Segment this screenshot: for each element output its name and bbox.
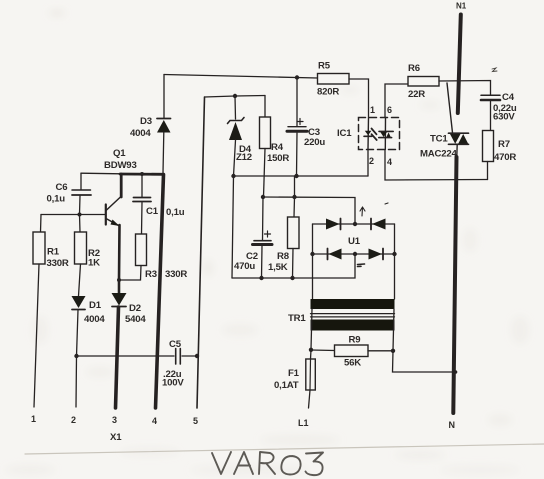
svg-text:2: 2 <box>369 156 374 166</box>
svg-text:R8: R8 <box>277 251 290 262</box>
svg-text:22R: 22R <box>408 89 425 100</box>
resistor R8 <box>268 197 299 278</box>
svg-text:N1: N1 <box>456 2 467 11</box>
svg-text:U1: U1 <box>348 236 361 247</box>
svg-text:R5: R5 <box>318 61 331 72</box>
wire X1 pin5 lead <box>197 97 205 408</box>
svg-text:IC1: IC1 <box>337 128 352 139</box>
VAR 03 title lettering R <box>259 452 275 474</box>
svg-text:TR1: TR1 <box>288 313 306 324</box>
svg-text:1: 1 <box>370 105 375 115</box>
svg-text:X1: X1 <box>110 432 122 443</box>
wire C5 link left <box>77 355 175 357</box>
svg-text:4004: 4004 <box>130 128 151 139</box>
node C5 right <box>195 354 199 358</box>
VAR 03 title lettering V <box>212 452 231 474</box>
U1 label and polarity marks <box>348 203 388 267</box>
node R8 bottom <box>290 276 294 280</box>
svg-text:820R: 820R <box>317 87 339 98</box>
svg-text:56K: 56K <box>344 358 361 369</box>
capacitor C2 <box>234 197 272 278</box>
wire minus net horizontal <box>234 175 369 177</box>
svg-text:0,1u: 0,1u <box>47 194 66 205</box>
svg-text:D2: D2 <box>129 303 141 314</box>
node U1 ac right <box>392 252 396 256</box>
wire U1 left leg down to TR1 <box>312 224 314 299</box>
node C2 bottom <box>259 276 263 280</box>
resistor R3 <box>119 234 187 280</box>
svg-text:4004: 4004 <box>84 314 105 325</box>
node U1 plus output <box>353 222 357 226</box>
wire IC1 pin6 to R6 <box>385 84 408 118</box>
wire to neutral bottom <box>393 351 457 372</box>
triac TC1 <box>420 133 469 159</box>
node R3/emitter junction <box>117 278 121 282</box>
wire X1 pin1 lead <box>34 264 39 407</box>
capacitor C1 <box>133 172 185 234</box>
stray pen mark near C4 <box>492 68 497 72</box>
fuse F1 <box>274 350 315 408</box>
node D4 top <box>233 94 237 98</box>
wire X1 pin2 lead <box>75 356 78 407</box>
svg-text:1: 1 <box>31 414 36 424</box>
node R8 top <box>292 195 296 199</box>
svg-text:0,1u: 0,1u <box>166 207 185 218</box>
node C5 left <box>74 354 78 358</box>
resistor R1 <box>33 215 69 270</box>
wire link between nets <box>294 176 296 197</box>
diode D3 <box>130 75 171 174</box>
node U1 ac left <box>310 252 314 256</box>
diode U1 bridge bottom-left <box>313 249 395 260</box>
node R9 left junction <box>309 348 313 352</box>
resistor R7 <box>483 131 517 180</box>
svg-text:BDW93: BDW93 <box>104 160 137 171</box>
svg-text:R7: R7 <box>498 139 510 150</box>
svg-text:R9: R9 <box>349 335 361 346</box>
svg-text:R3: R3 <box>145 269 157 280</box>
svg-text:470R: 470R <box>494 152 516 163</box>
capacitor C6 <box>47 173 92 214</box>
svg-text:2: 2 <box>71 415 76 425</box>
svg-text:3: 3 <box>112 415 117 425</box>
resistor R2 <box>75 215 101 269</box>
transformer TR1 <box>288 299 395 331</box>
wire plus net horizontal <box>263 197 355 223</box>
resistor R9 <box>311 335 393 369</box>
svg-text:TC1: TC1 <box>430 134 448 145</box>
svg-text:100V: 100V <box>162 378 184 389</box>
wire IC1 pin2 to minus net <box>367 150 369 177</box>
wire C3 top <box>296 78 298 127</box>
wire top supply rail from D3 cathode to R5 <box>164 75 318 79</box>
svg-text:0,1AT: 0,1AT <box>274 380 299 391</box>
svg-text:L1: L1 <box>298 418 309 428</box>
diode D1 <box>72 264 106 356</box>
svg-text:4: 4 <box>387 157 392 167</box>
wire IC1 pin4 to snubber bottom <box>385 150 488 181</box>
transistor Q1 <box>104 148 137 226</box>
svg-text:D1: D1 <box>89 300 102 311</box>
svg-text:4: 4 <box>152 416 157 426</box>
wire TR1 right primary lead <box>393 309 394 351</box>
svg-text:R6: R6 <box>408 63 420 74</box>
VAR 03 title lettering 3 <box>306 453 324 476</box>
svg-text:630V: 630V <box>493 112 515 123</box>
node C3 bottom junction <box>294 174 298 178</box>
svg-text:MAC224: MAC224 <box>420 149 458 160</box>
svg-text:220u: 220u <box>304 137 325 148</box>
wire N1 drop lower thick <box>453 157 456 413</box>
svg-text:C6: C6 <box>56 182 68 193</box>
node C6/R2 junction <box>78 213 82 217</box>
node U1 minus output <box>353 252 357 256</box>
wire C3 bottom to minus net <box>296 133 299 176</box>
resistor R5 <box>317 61 349 98</box>
svg-text:N: N <box>449 420 456 430</box>
IC1 internal photo-triac <box>379 118 393 150</box>
svg-text:1,5K: 1,5K <box>268 262 288 273</box>
node R9 right junction <box>391 349 395 353</box>
node D4 bottom <box>231 174 235 178</box>
wire bottom dc net <box>232 255 355 279</box>
capacitor C3 <box>287 119 325 149</box>
wire faint page rule line <box>25 444 544 454</box>
svg-text:C4: C4 <box>502 92 515 103</box>
wire R5 to IC1 pin1 <box>349 79 369 117</box>
svg-text:6: 6 <box>387 105 392 115</box>
wire Q1 base rail <box>41 214 105 216</box>
zener diode D4 <box>228 96 252 176</box>
wire triac gate slant <box>447 83 453 133</box>
svg-text:1K: 1K <box>88 258 100 269</box>
diode U1 bridge bottom-right <box>369 249 384 260</box>
node neutral junction <box>454 370 458 374</box>
node C3 top junction <box>295 75 299 79</box>
svg-text:Z12: Z12 <box>236 152 252 163</box>
VAR 03 title lettering A <box>234 452 253 474</box>
svg-text:470u: 470u <box>234 261 255 272</box>
diode U1 bridge top-right <box>371 219 386 230</box>
resistor R4 <box>260 96 290 198</box>
resistor R6 <box>408 63 439 100</box>
svg-text:5404: 5404 <box>125 314 146 325</box>
wire Q1 emitter thick drop <box>118 225 121 280</box>
op-amp: optocoupler IC1 dashed body <box>337 118 400 150</box>
diode U1 bridge top-left <box>313 219 395 230</box>
svg-text:5: 5 <box>193 416 198 426</box>
wire collector rail thin part from C6 <box>81 172 121 175</box>
svg-text:330R: 330R <box>165 269 187 280</box>
wire X1 pin3 thick lead <box>116 307 119 408</box>
svg-text:R4: R4 <box>271 142 284 153</box>
wire C5 link right <box>182 355 197 357</box>
svg-text:C5: C5 <box>169 339 182 350</box>
IC1 internal LED <box>364 118 377 150</box>
wire R6 to snubber corner <box>439 81 491 96</box>
capacitor C4 <box>481 92 517 131</box>
node C2 top <box>261 195 265 199</box>
svg-text:F1: F1 <box>288 368 300 379</box>
svg-text:C1: C1 <box>146 206 159 217</box>
wire U1 right leg down to TR1 <box>394 224 396 299</box>
wire collector rail thick bus <box>120 173 164 176</box>
svg-text:150R: 150R <box>267 153 289 164</box>
wire TR1 left primary lead <box>311 309 312 350</box>
wire zener top rail <box>205 96 266 98</box>
wire D4 drop to bottom net <box>232 176 234 278</box>
VAR 03 title lettering 0 <box>281 456 300 475</box>
wire N1 drop upper thick <box>458 15 461 114</box>
capacitor C5 <box>162 339 184 389</box>
svg-text:D3: D3 <box>140 116 152 127</box>
svg-text:Q1: Q1 <box>113 148 126 159</box>
wire X1 pin4 thick lead <box>156 175 164 409</box>
svg-text:R1: R1 <box>47 247 60 258</box>
svg-text:330R: 330R <box>47 258 69 269</box>
diode D2 <box>112 280 147 325</box>
